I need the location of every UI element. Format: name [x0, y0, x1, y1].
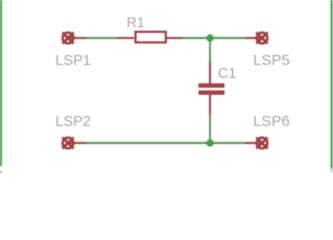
- resistor R1: [117, 32, 183, 43]
- capacitor C1: [199, 61, 225, 115]
- solder pad LSP1: [62, 32, 86, 43]
- wire: bottom net, LSP2 pin to junction to LSP6 pin: [86, 142, 246, 144]
- value label C1: [218, 66, 237, 82]
- wire: vertical net, C1 pin 2 down to bottom junction: [209, 114, 211, 143]
- solder pad LSP2: [62, 137, 86, 148]
- value label R1: [127, 14, 145, 30]
- name label LSP1: [55, 53, 90, 69]
- name label LSP5: [253, 52, 290, 69]
- wire: top net, LSP1 pin to R1 left pin: [86, 37, 118, 39]
- wire: top net, R1 right pin to junction to LSP5 pin: [182, 37, 246, 39]
- node: junction on top net at vertical branch: [206, 34, 213, 41]
- wire: vertical net, top junction down to C1 pin 1: [209, 38, 211, 62]
- name label LSP2: [55, 114, 90, 130]
- name label LSP6: [253, 113, 290, 130]
- node: junction on bottom net at vertical branch: [206, 139, 213, 146]
- solder pad LSP5: [245, 32, 268, 43]
- solder pad LSP6: [245, 137, 268, 148]
